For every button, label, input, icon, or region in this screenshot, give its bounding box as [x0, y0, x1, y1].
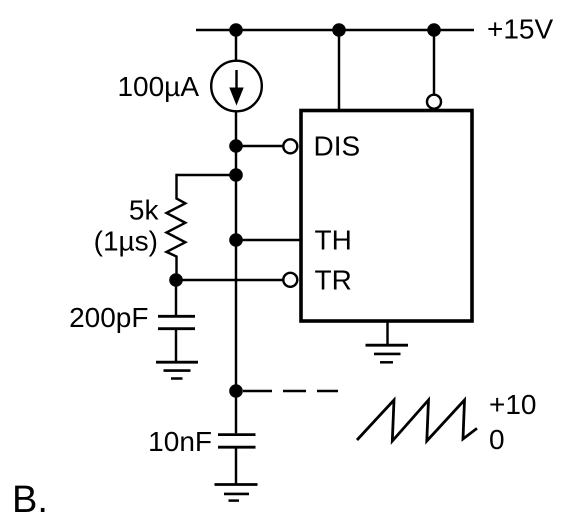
junction dot on rail above box pin 1	[332, 23, 346, 37]
svg-text:(1µs): (1µs)	[94, 226, 158, 257]
ground under 200pF	[156, 361, 198, 364]
open circle pin at box top	[427, 95, 441, 109]
sawtooth output waveform	[357, 400, 477, 441]
current source arrow	[235, 70, 237, 93]
wire 200pF top lead	[175, 280, 177, 315]
junction dot at resistor top wire	[229, 168, 243, 182]
junction dot resistor bottom / 200pF node	[169, 273, 183, 287]
svg-text:+10: +10	[489, 389, 537, 420]
wire TR node across to TR pin	[176, 279, 283, 281]
wire current source down main vertical net	[235, 111, 237, 391]
current source I1 100uA circle	[211, 61, 262, 112]
wire to TH pin	[236, 239, 301, 241]
svg-text:B.: B.	[12, 479, 48, 521]
wire to DIS pin	[236, 145, 283, 147]
wire rail to box top right open-circle pin	[433, 30, 435, 94]
svg-text:TR: TR	[315, 265, 352, 296]
svg-text:100µA: 100µA	[117, 71, 199, 102]
svg-text:DIS: DIS	[314, 131, 361, 162]
junction dot on rail above current source	[229, 23, 243, 37]
junction dot at TH wire	[229, 233, 243, 247]
svg-text:0: 0	[489, 424, 505, 455]
junction dot at DIS wire	[229, 139, 243, 153]
junction dot on rail above box pin 2	[427, 23, 441, 37]
resistor R 5k zigzag	[167, 174, 186, 280]
wire 10nF bottom lead	[235, 449, 237, 484]
svg-text:10nF: 10nF	[148, 426, 212, 457]
svg-text:+15V: +15V	[487, 14, 553, 45]
wire box ground stem	[386, 323, 388, 345]
pin DIS open circle	[283, 139, 297, 153]
junction dot at 10nF node	[229, 384, 243, 398]
pin TR open circle	[283, 273, 297, 287]
wire dashed probe line from 10nF node	[243, 390, 272, 392]
op-amp/timer U1 box outline	[301, 111, 472, 322]
wire 10nF top lead	[235, 391, 237, 433]
wire rail to current source	[235, 30, 237, 62]
ground under 10nF	[215, 483, 258, 486]
wire to resistor top	[177, 174, 237, 176]
svg-text:TH: TH	[315, 225, 352, 256]
capacitor C2 10nF plates	[218, 433, 256, 436]
svg-text:200pF: 200pF	[69, 302, 148, 333]
wire rail to box top left	[338, 30, 340, 110]
capacitor C1 200pF plates	[158, 315, 195, 318]
wire 200pF bottom lead	[175, 330, 177, 361]
+15V supply rail wire	[196, 29, 474, 31]
ground under box	[366, 344, 409, 347]
svg-text:5k: 5k	[129, 195, 160, 226]
